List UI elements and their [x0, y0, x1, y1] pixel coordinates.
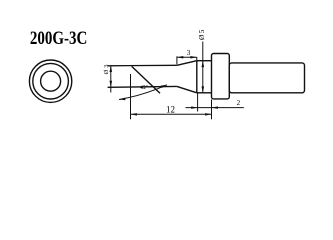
dim 12 line — [131, 113, 212, 115]
bevel edge 45deg — [132, 66, 160, 93]
dim 12 arrow left — [131, 113, 137, 116]
dim 3 line — [177, 56, 197, 58]
svg-text:2: 2 — [237, 99, 241, 107]
dim 2 arrow right outside — [212, 106, 218, 109]
dim 12 ext line (tip) — [130, 74, 132, 119]
dim 2 ext line left (cone end) — [197, 94, 199, 112]
svg-text:45°: 45° — [140, 84, 148, 91]
dim Ø3 arrow down — [110, 81, 113, 87]
dim 2 ext line right (collar edge) — [211, 100, 213, 120]
dim Ø3 arrow up — [110, 66, 113, 72]
dim Ø3 line — [110, 66, 112, 93]
front view outer circle — [29, 60, 71, 102]
arc arrow left — [119, 98, 126, 101]
cone top edge — [177, 61, 197, 66]
dim Ø5 arrow up — [202, 61, 205, 67]
dim Ø5 line — [202, 42, 204, 94]
dim 3 arrow right — [190, 56, 196, 59]
neck top edge — [197, 60, 212, 62]
arc arrow right — [161, 85, 167, 88]
dim 2 arrow left outside — [191, 106, 197, 109]
dim 2 line — [186, 107, 244, 109]
dim 12 arrow right — [205, 113, 211, 116]
collar — [212, 54, 230, 99]
svg-text:200G-3C: 200G-3C — [30, 29, 88, 49]
cone large end — [196, 61, 198, 93]
neck bottom edge — [197, 92, 212, 94]
shaft — [229, 63, 304, 93]
front view inner circle — [41, 71, 61, 91]
svg-text:12: 12 — [166, 104, 175, 114]
svg-text:Ø5: Ø5 — [197, 28, 206, 40]
dim 3 ext line right — [196, 57, 198, 60]
dim 3 ext line left — [176, 56, 178, 64]
cone bottom edge — [177, 86, 197, 92]
dim 3 arrow left — [177, 56, 183, 59]
dim Ø5 arrow down — [202, 86, 205, 92]
tip top edge + extension line — [108, 64, 177, 67]
svg-text:Ø3: Ø3 — [103, 62, 110, 74]
angle arc 45deg — [119, 85, 167, 100]
front view middle circle — [33, 63, 69, 99]
tip bottom edge + extension line — [108, 85, 177, 88]
svg-text:3: 3 — [187, 49, 191, 57]
